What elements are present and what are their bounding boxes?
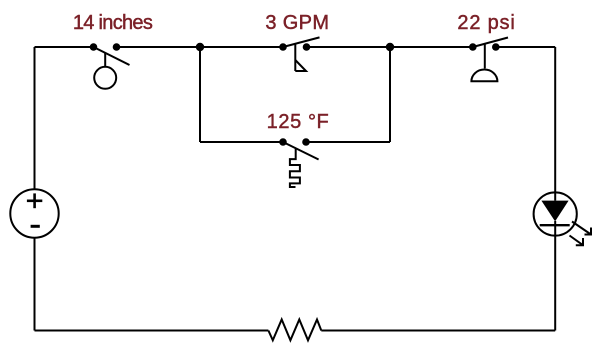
LED D1 (534, 192, 591, 245)
liquid level switch (14 inches) (90, 43, 130, 89)
wire: bottom right segment (321, 330, 555, 332)
voltage source V1 (10, 189, 58, 237)
junction node left (196, 43, 204, 51)
wire: left vertical top segment (34, 47, 36, 190)
wire: top segment A (35, 46, 94, 48)
svg-text:22 psi: 22 psi (457, 12, 515, 34)
wire: right vertical top segment (554, 47, 556, 192)
svg-text:125 °F: 125 °F (267, 111, 330, 133)
wire: top segment B (117, 46, 284, 48)
svg-text:3 GPM: 3 GPM (265, 12, 329, 34)
wire: top segment C (307, 46, 473, 48)
junction node right (386, 43, 394, 51)
branch wire: left vertical (199, 47, 201, 142)
wire: right vertical bottom segment (554, 236, 556, 331)
wire: bottom left segment (35, 330, 269, 332)
branch wire: right horizontal (306, 141, 390, 143)
branch wire: left horizontal (200, 141, 283, 143)
wire: left vertical bottom segment (34, 238, 36, 331)
resistor R1 (268, 320, 321, 341)
flow switch (3 GPM) (279, 37, 319, 71)
pressure switch (22 psi) (469, 38, 508, 82)
temperature switch (125 °F) (279, 138, 318, 187)
svg-text:14 inches: 14 inches (73, 12, 153, 34)
branch wire: right vertical (389, 47, 391, 142)
wire: top segment D (496, 46, 555, 48)
